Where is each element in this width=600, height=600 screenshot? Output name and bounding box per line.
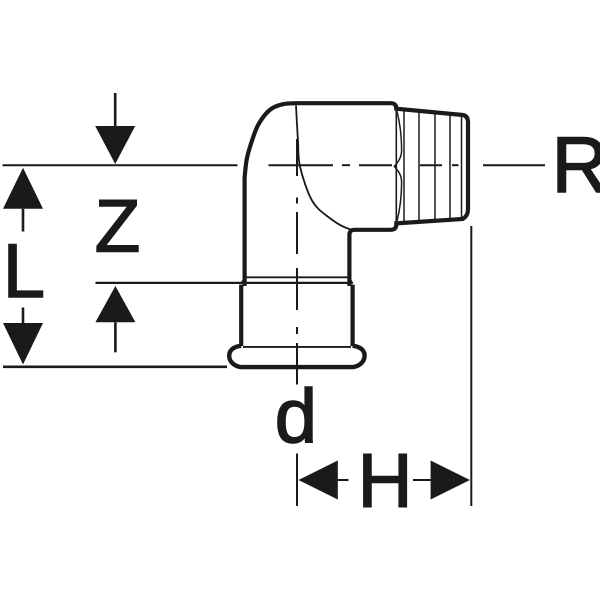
svg-text:H: H: [358, 439, 413, 524]
svg-text:L: L: [3, 229, 45, 314]
svg-text:Z: Z: [95, 185, 141, 268]
svg-text:d: d: [275, 374, 317, 459]
svg-text:R: R: [552, 120, 600, 209]
